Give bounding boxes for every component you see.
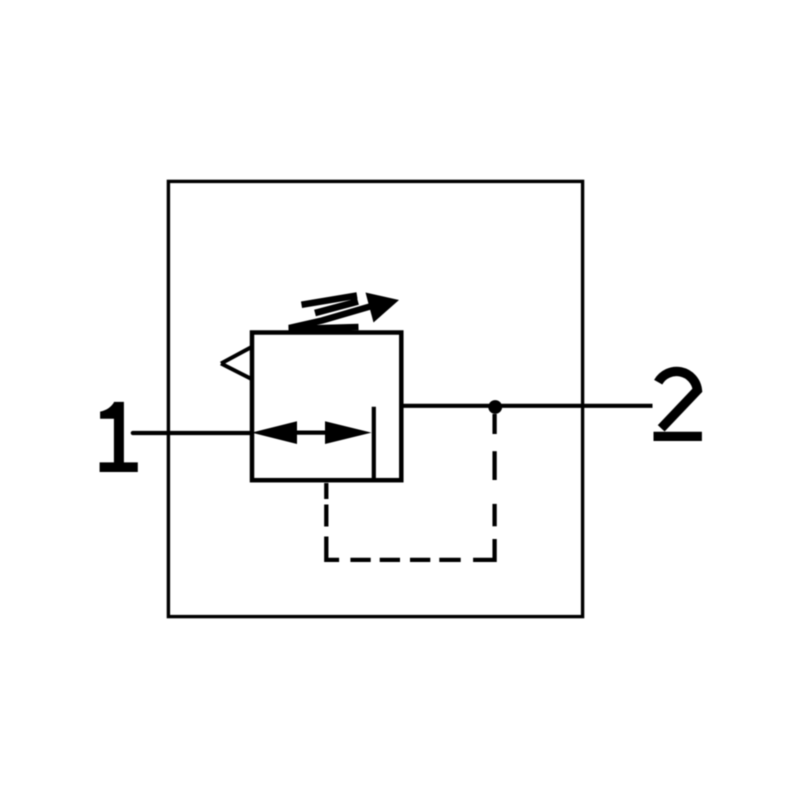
port 1 line <box>133 431 252 435</box>
flow arrow shaft <box>294 431 328 435</box>
label 1 <box>100 402 138 472</box>
label 2 <box>658 371 697 428</box>
spring adjustment arrow shaft <box>289 307 370 329</box>
node dot <box>488 400 502 414</box>
flow arrowhead right <box>325 421 372 444</box>
flow arrowhead left <box>252 421 298 444</box>
port 2 line <box>401 404 653 408</box>
outer enclosure rectangle <box>168 181 582 616</box>
pilot line (dashed) <box>326 414 494 560</box>
spring adjustment arrowhead <box>366 293 400 323</box>
vent triangle <box>221 347 253 380</box>
valve seat line <box>372 407 376 482</box>
spring zigzag <box>289 296 359 330</box>
valve body square <box>252 333 401 481</box>
